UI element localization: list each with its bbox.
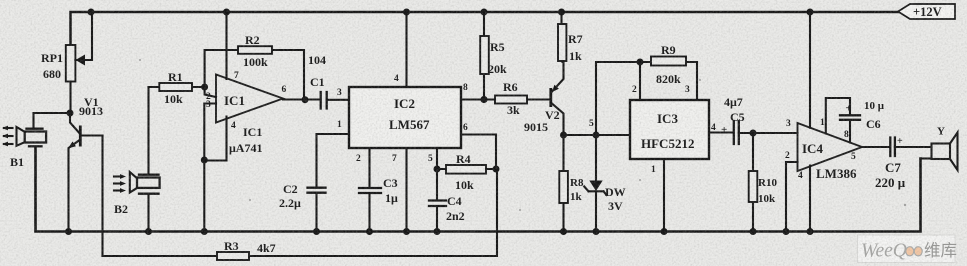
capacitor C3 1u on IC2 pin2 <box>359 148 398 232</box>
resistor R4 10k <box>437 152 496 192</box>
op-amp IC1 uA741 <box>204 12 320 161</box>
transistor V2 9015 <box>524 62 564 135</box>
wire IC1 ground <box>203 160 205 232</box>
resistor R6 3k <box>484 80 551 117</box>
scan artifact specks <box>139 59 906 211</box>
resistor R9 820k <box>596 43 697 135</box>
IC2 LM567 <box>337 74 468 164</box>
IC3 HFC5212 <box>630 85 716 175</box>
junction dot rail R5 <box>481 9 488 16</box>
junction dot DW ground <box>593 228 600 235</box>
junction dot rail wiper <box>88 9 95 16</box>
arrows B1 emission <box>2 126 13 147</box>
junction dot rail R7 <box>558 9 565 16</box>
resistor R1 10k <box>149 70 205 106</box>
+12V supply flag <box>898 4 955 19</box>
junction dot pin7 ground <box>403 228 410 235</box>
capacitor C6 10u <box>840 100 885 131</box>
wire +12V top supply rail <box>71 12 899 45</box>
wire V1 collector down <box>101 136 103 257</box>
wire V2 collector bus <box>564 134 630 136</box>
potentiometer RP1 <box>41 12 92 113</box>
node junction collector/R8 <box>560 132 567 139</box>
transducer B2 <box>114 87 160 232</box>
wire IC2 pin4 supply <box>405 12 407 87</box>
resistor R5 20k <box>480 12 507 100</box>
capacitor C1 104 <box>308 53 349 109</box>
node junction pin5/R4/C4 <box>434 166 441 173</box>
junction dot IC4 pin2 ground <box>783 228 790 235</box>
node junction R1/R2/pin2 <box>201 84 208 91</box>
capacitor C4 2n2 <box>429 169 465 232</box>
junction dot R8 ground <box>560 228 567 235</box>
junction dot R9/pin2 <box>637 59 644 66</box>
capacitor C2 2.2u on IC2 pin1 <box>279 134 349 232</box>
resistor R3 4k7 bottom loop <box>103 169 498 260</box>
wire IC2 pin8 <box>461 98 484 100</box>
junction dot rail IC1 pin7 <box>223 9 230 16</box>
capacitor C5 4u7 <box>709 95 753 144</box>
junction dot IC4 pin4 ground <box>807 228 814 235</box>
junction dot IC1 pin3/pin4 <box>201 157 208 164</box>
junction dot C4 ground <box>434 228 441 235</box>
capacitor C7 220u <box>875 136 932 190</box>
transducer B1 <box>10 113 70 232</box>
resistor R8 1k <box>559 135 584 232</box>
wire IC2 pin7 ground <box>405 148 407 232</box>
node junction bus/DW/R9 <box>593 132 600 139</box>
resistor R10 10k <box>749 133 778 232</box>
zener diode DW 3V <box>584 135 625 232</box>
junction dot pin1 ground <box>661 228 668 235</box>
node junction R5/R6/pin8 <box>480 96 487 103</box>
wire IC2 pin5 down <box>436 148 438 169</box>
op-amp IC4 LM386 <box>753 12 890 232</box>
resistor R2 100k feedback <box>205 33 304 100</box>
wire IC3 pin1 ground <box>663 159 665 232</box>
wire bottom ground rail <box>36 147 921 232</box>
junction dot rail IC2 pin4 <box>403 9 410 16</box>
resistor R7 1k <box>558 12 583 63</box>
junction dot C3 ground <box>366 228 373 235</box>
wire IC2 pin6 <box>461 135 496 170</box>
node junction IC1 output <box>302 96 309 103</box>
junction dot IC1 ground <box>201 228 208 235</box>
junction dot rail IC4 pin6 <box>807 9 814 16</box>
node junction R4 right <box>493 166 500 173</box>
node A junction RP1/B1/V1 base <box>67 110 74 117</box>
transistor V1 9013 <box>68 95 103 232</box>
speaker Y <box>921 126 958 171</box>
junction dot B2 ground <box>145 228 152 235</box>
junction dot R10 ground <box>750 228 757 235</box>
node junction C5/R10/IC4 pin3 <box>750 130 757 137</box>
watermark WeeQoo <box>858 235 958 263</box>
wire IC3 pin2 <box>639 62 641 100</box>
junction dot V1 emitter ground <box>65 228 72 235</box>
arrows B2 reception <box>114 174 126 193</box>
junction dot C2 ground <box>313 228 320 235</box>
